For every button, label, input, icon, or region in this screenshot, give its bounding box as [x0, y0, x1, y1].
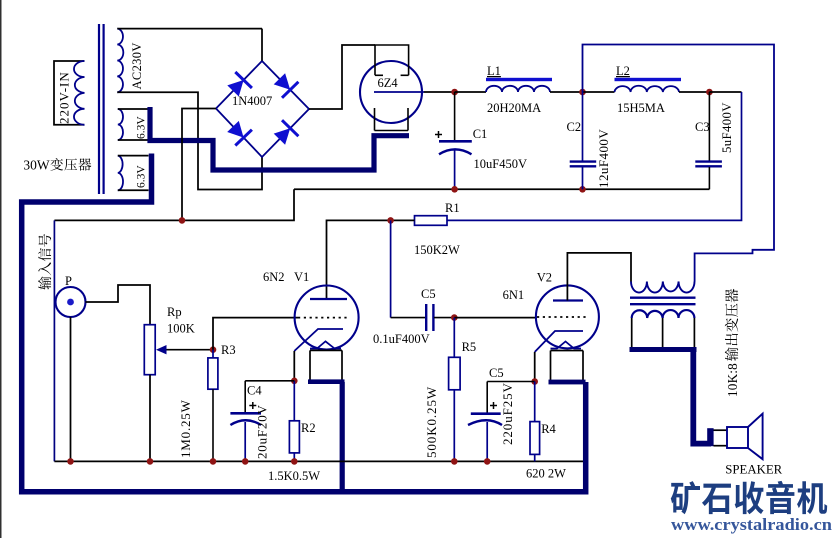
bridge rectifier diamond 1N4007 — [216, 61, 309, 157]
svg-text:P: P — [65, 274, 72, 288]
svg-text:C1: C1 — [473, 127, 488, 141]
wire V2 plate to output transformer — [567, 253, 631, 301]
svg-text:10K:8: 10K:8 — [725, 363, 740, 397]
svg-text:C4: C4 — [247, 384, 262, 398]
label 0.1uF400V — [373, 332, 430, 346]
secondary winding AC230V — [117, 29, 123, 93]
label R5 — [462, 340, 477, 354]
V2 grid (dashed) — [537, 316, 588, 318]
transformer core — [99, 24, 104, 194]
junction dot V2 grid node — [451, 314, 458, 321]
wire jack sleeve to ground — [70, 317, 72, 461]
wire node C down to R1 rail — [447, 92, 742, 220]
svg-text:30W: 30W — [23, 158, 50, 173]
junction dot wiper-R3 — [210, 346, 217, 353]
label 10uF450V — [474, 157, 527, 171]
junction dot pot-ground — [147, 458, 154, 465]
wire L1 to node B — [550, 91, 583, 93]
capacitor C1 10uF450V — [435, 92, 472, 189]
svg-text:1M0.25W: 1M0.25W — [178, 399, 193, 458]
resistor R4 620 2W — [530, 382, 540, 462]
label 1N4007 — [232, 94, 272, 108]
wire 6Z4 cathode to node A — [424, 91, 455, 93]
label P — [65, 274, 72, 288]
svg-text:AC230V: AC230V — [130, 42, 144, 89]
svg-text:6Z4: 6Z4 — [378, 76, 399, 90]
capacitor C4 20uF20V — [230, 381, 294, 462]
resistor R1 150K2W — [415, 216, 448, 226]
6Z4 heater — [375, 108, 409, 131]
svg-text:V1: V1 — [294, 270, 309, 284]
ground rail bottom — [54, 460, 583, 462]
label C4 — [247, 384, 262, 398]
label 220V-IN (primary) — [57, 71, 72, 124]
label C2 — [567, 120, 582, 134]
choke L2 — [615, 78, 682, 92]
label 6Z4 — [378, 76, 399, 90]
svg-text:1.5K0.5W: 1.5K0.5W — [268, 469, 320, 483]
label 500K0.25W — [424, 386, 439, 458]
wire bridge left to ground rail — [182, 109, 216, 221]
label 100K — [167, 322, 195, 336]
heater bus drop to V1 heater — [340, 382, 345, 491]
wire node C to B+ drop — [709, 91, 741, 93]
svg-text:6N2: 6N2 — [263, 270, 285, 284]
label C5b — [489, 366, 504, 380]
label Rp — [167, 305, 182, 319]
wire jack to pot top — [86, 285, 151, 325]
capacitor C3 5uF400V — [695, 92, 722, 189]
junction dot C5b-ground — [484, 458, 491, 465]
heater bus wire from 6.3V #1 to 6Z4 heater — [150, 107, 409, 170]
V2 plate — [553, 299, 583, 301]
junction dot R3-ground — [210, 458, 217, 465]
junction dot C1-bottom — [451, 186, 458, 193]
svg-text:L2: L2 — [616, 64, 630, 78]
6Z4 cathode — [374, 91, 424, 93]
junction dot V2 cathode node — [531, 378, 538, 385]
wire grid node to V2 grid — [454, 317, 536, 319]
label C1 — [473, 127, 488, 141]
wire AC230V top to bridge top — [117, 29, 262, 61]
label L1 — [487, 64, 501, 78]
svg-text:L1: L1 — [487, 64, 501, 78]
junction dot V1 cathode node — [291, 378, 298, 385]
secondary winding 6.3V #2 — [118, 156, 149, 191]
label 220uF25V — [500, 382, 515, 445]
label 5uF400V — [720, 102, 734, 153]
svg-text:6N1: 6N1 — [503, 288, 525, 302]
svg-text:20H20MA: 20H20MA — [487, 101, 541, 115]
svg-text:0.1uF400V: 0.1uF400V — [373, 332, 430, 346]
svg-text:10uF450V: 10uF450V — [474, 157, 527, 171]
svg-text:100K: 100K — [167, 322, 195, 336]
svg-text:6.3V: 6.3V — [136, 165, 148, 188]
svg-text:220uF25V: 220uF25V — [500, 382, 515, 445]
svg-text:R2: R2 — [301, 421, 316, 435]
svg-text:C2: C2 — [567, 120, 582, 134]
svg-text:1N4007: 1N4007 — [232, 94, 272, 108]
output transformer primary — [631, 282, 695, 293]
V1 cathode — [294, 329, 343, 381]
diode D4 (bottom-right) — [274, 120, 299, 145]
svg-text:6.3V: 6.3V — [136, 116, 148, 139]
label 20uF20V — [255, 404, 270, 459]
wire wiper node up to V1 grid — [213, 318, 298, 350]
svg-text:C3: C3 — [695, 120, 710, 134]
input jack P — [56, 287, 86, 317]
label 12uF400V — [596, 129, 611, 188]
diode D2 (top-right) — [274, 73, 299, 98]
capacitor C5b 220uF25V — [468, 382, 535, 462]
wire tap down to C5 — [390, 220, 392, 317]
label C3 — [695, 120, 710, 134]
svg-text:R3: R3 — [221, 343, 236, 357]
input section left wire — [53, 220, 55, 461]
svg-text:12uF400V: 12uF400V — [596, 129, 611, 188]
label 15H5MA — [617, 101, 665, 115]
svg-text:R5: R5 — [462, 340, 477, 354]
heater bus wire from 6.3V #2 around board (ground bus) — [22, 154, 586, 492]
label input signal 输入信号 — [38, 234, 51, 290]
capacitor C5 0.1uF400V — [391, 304, 455, 331]
triode V2 6N1 envelope — [536, 285, 599, 348]
wire bridge right to 6Z4 plate — [309, 45, 375, 109]
label R3 — [221, 343, 236, 357]
label SPEAKER — [725, 463, 782, 477]
label R4 — [541, 422, 556, 436]
label V2 — [537, 271, 552, 285]
svg-text:V2: V2 — [537, 271, 552, 285]
label AC230V — [130, 42, 144, 89]
output transformer secondary — [632, 310, 695, 347]
potentiometer Rp 100K — [144, 325, 213, 375]
wire AC230V bottom to bridge bottom — [117, 92, 262, 189]
triode V1 6N2 envelope — [295, 286, 359, 350]
output transformer secondary bottom bar — [630, 347, 697, 352]
svg-text:Rp: Rp — [167, 305, 182, 319]
node A junction dot — [451, 89, 458, 96]
svg-text:150K2W: 150K2W — [414, 243, 460, 257]
V2 heater — [549, 342, 586, 385]
node C junction dot — [706, 89, 713, 96]
rectifier tube 6Z4 envelope — [360, 61, 422, 123]
label R2 — [301, 421, 316, 435]
junction dot R2-ground — [291, 458, 298, 465]
speaker wire (thick) — [693, 349, 713, 446]
label C5 (coupling) — [421, 287, 436, 301]
wire R1 left to V1 plate — [327, 220, 415, 299]
diode D3 (left-bottom) — [227, 121, 252, 146]
label 620 2W — [526, 467, 566, 481]
svg-text:20uF20V: 20uF20V — [255, 404, 270, 459]
power transformer T1 primary winding 220V-IN — [54, 61, 85, 125]
capacitor C2 12uF400V — [570, 92, 597, 189]
svg-text:www.crystalradio.cn: www.crystalradio.cn — [671, 515, 833, 534]
secondary winding 6.3V #1 — [118, 109, 149, 140]
label 150K2W — [414, 243, 460, 257]
junction dot C2-bottom — [579, 186, 586, 193]
label V1 — [294, 270, 309, 284]
label 20H20MA — [487, 101, 541, 115]
label 1M0.25W — [178, 399, 193, 458]
label 6N2 — [263, 270, 285, 284]
svg-text:220V-IN: 220V-IN — [57, 71, 72, 124]
filter ground rail — [294, 188, 709, 190]
resistor R2 1.5K0.5W — [289, 381, 299, 462]
label 10K:8 output transformer — [725, 289, 740, 397]
wire L2 to node C — [679, 91, 709, 93]
label 6.3V #1 — [136, 116, 148, 139]
label 30W transformer — [23, 158, 91, 173]
choke L1 — [486, 78, 552, 92]
6Z4 plate — [375, 45, 409, 75]
V1 grid (dashed) — [298, 317, 349, 319]
junction dot ground-bridge — [179, 217, 186, 224]
junction dot jack-ground — [67, 458, 74, 465]
wire pot bottom to ground — [149, 375, 151, 462]
junction dot C4-ground — [242, 458, 249, 465]
svg-text:R1: R1 — [445, 201, 460, 215]
svg-text:SPEAKER: SPEAKER — [725, 463, 782, 477]
resistor R3 1M0.25W — [208, 350, 218, 462]
svg-text:5uF400V: 5uF400V — [720, 102, 734, 153]
V2 cathode — [535, 331, 583, 382]
label 6.3V #2 — [136, 165, 148, 188]
V1 plate — [310, 298, 347, 300]
svg-text:500K0.25W: 500K0.25W — [424, 386, 439, 458]
label 6N1 — [503, 288, 525, 302]
node B junction dot — [579, 89, 586, 96]
wire node A to L1 — [455, 91, 486, 93]
svg-text:R4: R4 — [541, 422, 556, 436]
svg-text:C5: C5 — [421, 287, 436, 301]
wire B+ top loop (node B to output transformer) — [583, 45, 775, 282]
output transformer core — [630, 298, 696, 305]
junction dot R1-C5 tap — [387, 217, 394, 224]
V1 heater — [308, 341, 345, 384]
ground rail left (from bridge) — [54, 189, 294, 220]
watermark 矿石收音机 — [671, 481, 827, 514]
watermark www.crystalradio.cn — [671, 515, 833, 534]
speaker SPEAKER — [727, 414, 763, 460]
junction dot R5-ground — [451, 458, 458, 465]
label R1 — [445, 201, 460, 215]
diode D1 (left-top) — [227, 72, 252, 97]
resistor R5 500K0.25W — [449, 318, 461, 462]
wire node B to L2 — [583, 91, 615, 93]
label L2 — [616, 64, 630, 78]
svg-text:620 2W: 620 2W — [526, 467, 566, 481]
speaker terminals — [714, 430, 728, 446]
label 1.5K0.5W — [268, 469, 320, 483]
svg-text:15H5MA: 15H5MA — [617, 101, 665, 115]
svg-text:C5: C5 — [489, 366, 504, 380]
